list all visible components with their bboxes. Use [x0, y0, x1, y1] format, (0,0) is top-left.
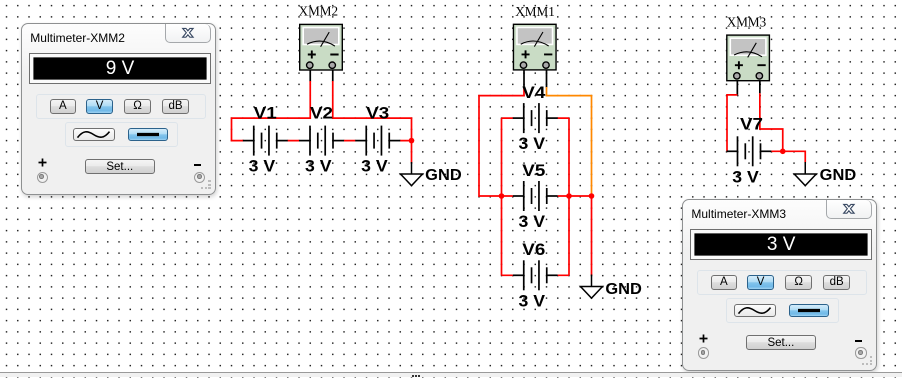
svg-text:GND: GND: [820, 167, 857, 184]
svg-text:V5: V5: [522, 161, 545, 180]
svg-text:XMM2: XMM2: [299, 5, 339, 20]
svg-text:3 V: 3 V: [361, 157, 388, 176]
svg-text:3 V: 3 V: [519, 291, 546, 310]
svg-text:3 V: 3 V: [519, 134, 546, 153]
svg-text:V7: V7: [740, 115, 763, 134]
svg-text:XMM1: XMM1: [515, 5, 555, 20]
svg-text:3 V: 3 V: [519, 212, 546, 231]
svg-text:V1: V1: [254, 104, 277, 123]
svg-text:GND: GND: [605, 281, 642, 298]
svg-text:V3: V3: [366, 104, 389, 123]
svg-text:XMM3: XMM3: [727, 16, 767, 31]
svg-text:3 V: 3 V: [732, 167, 759, 186]
svg-text:GND: GND: [425, 167, 462, 184]
svg-text:V2: V2: [310, 104, 333, 123]
svg-text:V6: V6: [522, 240, 545, 259]
svg-text:3 V: 3 V: [305, 157, 332, 176]
svg-text:3 V: 3 V: [249, 157, 276, 176]
svg-text:V4: V4: [522, 83, 546, 102]
